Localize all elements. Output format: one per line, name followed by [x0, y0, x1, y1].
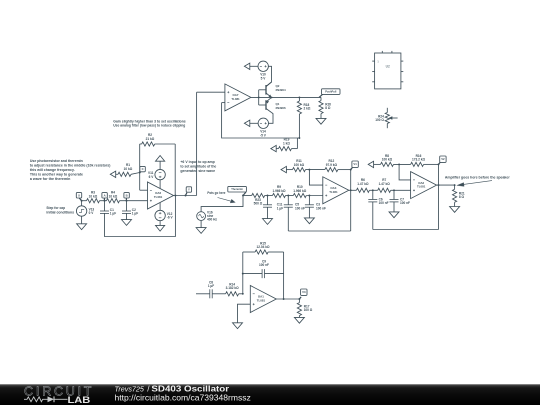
- ground: [77, 224, 87, 230]
- svg-text:100 Ω: 100 Ω: [375, 118, 384, 122]
- transistor Q2: [266, 82, 286, 97]
- svg-text:V3: V3: [302, 290, 306, 294]
- svg-text:Step for cap: Step for cap: [46, 206, 65, 210]
- wire noninverting input: [197, 91, 225, 93]
- svg-text:400 Hz: 400 Hz: [207, 218, 217, 222]
- op-amp OA1: [250, 286, 276, 313]
- wire: [250, 65, 258, 67]
- svg-text:100 kΩ: 100 kΩ: [382, 158, 393, 162]
- svg-text:+6 V input to op amp: +6 V input to op amp: [180, 160, 214, 164]
- svg-text:8 Ω: 8 Ω: [459, 195, 465, 199]
- flag V1: [351, 161, 359, 170]
- transistor Q1: [266, 97, 286, 112]
- op-amp OA7: [225, 84, 251, 111]
- svg-text:2N3906: 2N3906: [276, 106, 287, 110]
- wire inverting: [309, 170, 322, 186]
- junction: [81, 200, 128, 202]
- resistor R2: [140, 133, 176, 146]
- resistor R23: [252, 193, 273, 205]
- voltage source V13: [76, 201, 94, 217]
- IC U2: [372, 51, 403, 89]
- svg-text:10 kΩ: 10 kΩ: [109, 194, 118, 198]
- wire: [269, 113, 274, 124]
- ground: [122, 220, 132, 226]
- svg-text:This is another way to generat: This is another way to generate: [30, 173, 83, 177]
- node arrow at V14: [244, 120, 249, 126]
- wire noninverting: [238, 304, 251, 323]
- junction: [242, 195, 244, 197]
- wire: [159, 203, 161, 211]
- svg-text:10 kΩ: 10 kΩ: [124, 167, 133, 171]
- resistor R14: [226, 282, 243, 296]
- capacitor C7: [390, 190, 411, 212]
- resistor R18: [297, 97, 311, 138]
- junction: [271, 96, 273, 98]
- junction: [298, 96, 300, 98]
- resistor R6: [356, 178, 377, 192]
- wire base: [258, 90, 260, 105]
- node C: [139, 166, 146, 173]
- junction: [287, 195, 289, 197]
- wire feedback left: [139, 144, 141, 190]
- svg-text:U2: U2: [386, 65, 390, 69]
- junction: [242, 273, 244, 275]
- wire inverting input: [222, 102, 225, 104]
- annotation gain: [113, 120, 185, 128]
- flag V3: [299, 289, 307, 299]
- wire: [159, 221, 161, 226]
- resistor R20: [319, 97, 331, 118]
- node Y: [186, 187, 192, 196]
- junction: [308, 195, 310, 197]
- capacitor C3: [305, 196, 326, 218]
- resistor R4: [105, 191, 127, 203]
- svg-text:2 kΩ: 2 kΩ: [304, 107, 311, 111]
- svg-text:TL081: TL081: [231, 97, 240, 101]
- svg-text:100 kΩ: 100 kΩ: [294, 163, 305, 167]
- svg-text:100 nF: 100 nF: [316, 206, 326, 210]
- capacitor C2: [122, 201, 138, 220]
- svg-text:2N3904: 2N3904: [276, 88, 287, 92]
- svg-text:173.2 kΩ: 173.2 kΩ: [412, 158, 425, 162]
- junction: [438, 163, 440, 165]
- svg-text:generated sine wave: generated sine wave: [180, 169, 215, 173]
- svg-text:Trevs725: Trevs725: [115, 384, 145, 393]
- junction: [454, 184, 456, 186]
- svg-text:100 nF: 100 nF: [259, 263, 269, 267]
- junction: [267, 195, 269, 197]
- ground: [263, 219, 273, 225]
- resistor R17: [297, 299, 313, 317]
- flag Theremin: [228, 186, 247, 195]
- wire: [243, 195, 252, 197]
- voltage source V16: [197, 211, 218, 222]
- wire base: [259, 104, 266, 106]
- resistor R3: [87, 191, 105, 203]
- junction: [372, 189, 374, 191]
- wire to V16: [201, 196, 243, 212]
- wire feedback left: [242, 252, 244, 294]
- svg-text:TL081: TL081: [154, 195, 163, 199]
- node X: [76, 193, 81, 201]
- ground: [316, 118, 326, 124]
- svg-text:initial conditions: initial conditions: [46, 210, 74, 214]
- annotation step: [46, 206, 74, 214]
- potentiometer R24: [375, 108, 397, 128]
- annotation amplitude: [180, 160, 216, 173]
- capacitor C6: [368, 190, 388, 229]
- wire: [200, 221, 202, 228]
- ground: [450, 207, 460, 213]
- junction: [438, 184, 440, 186]
- annotation arrow: [218, 198, 236, 203]
- svg-text:3.182 kΩ: 3.182 kΩ: [226, 286, 239, 290]
- wire output node: [438, 164, 440, 229]
- svg-text:1 kΩ: 1 kΩ: [283, 141, 290, 145]
- wire feedback right: [174, 144, 176, 196]
- junction: [350, 169, 352, 171]
- wire loop: [288, 230, 350, 232]
- wire from OA6 output: [196, 92, 198, 195]
- voltage source V10: [258, 61, 268, 80]
- resistor R1: [116, 163, 140, 176]
- svg-text:this will change frequency.: this will change frequency.: [30, 168, 75, 172]
- wire output: [251, 96, 321, 98]
- resistor R11: [293, 159, 325, 172]
- resistor R15: [243, 241, 284, 254]
- wire: [127, 200, 148, 202]
- resistor R16: [411, 154, 439, 167]
- node arrow at V10: [244, 63, 249, 69]
- svg-text:1.966 kΩ: 1.966 kΩ: [273, 189, 286, 193]
- op-amp OA3: [323, 177, 349, 204]
- wire input: [196, 293, 210, 295]
- svg-text:1 µF: 1 µF: [277, 206, 283, 210]
- wire feedback: [222, 103, 300, 138]
- svg-text:A: A: [104, 193, 106, 197]
- capacitor C9: [243, 259, 284, 278]
- annotation arrow: [457, 181, 492, 187]
- svg-text:12.04 kΩ: 12.04 kΩ: [257, 245, 270, 249]
- svg-text:C: C: [142, 167, 144, 171]
- capacitor C11: [263, 196, 283, 219]
- node A: [102, 193, 107, 201]
- node B: [124, 193, 129, 201]
- ground: [196, 228, 206, 234]
- flag V2: [439, 156, 447, 164]
- svg-text:Pots go here: Pots go here: [207, 191, 225, 195]
- wire: [374, 163, 381, 165]
- op-amp OA6: [148, 182, 174, 209]
- wire output node: [350, 170, 352, 231]
- svg-text:SD403 Oscillator: SD403 Oscillator: [151, 384, 230, 393]
- svg-text:X: X: [78, 193, 80, 197]
- wire: [212, 293, 225, 295]
- resistor R12: [325, 159, 351, 172]
- wire: [81, 216, 83, 224]
- wire: [140, 189, 148, 191]
- wire feedback right: [283, 252, 285, 299]
- svg-text:B: B: [126, 193, 128, 197]
- wire output: [437, 184, 455, 186]
- node arrow at R11: [281, 166, 286, 172]
- svg-text:to set amplitude of the: to set amplitude of the: [180, 165, 216, 169]
- svg-text:TL081: TL081: [417, 185, 426, 189]
- footer bar: [0, 0, 1, 1]
- svg-text:-6 V: -6 V: [167, 216, 174, 220]
- svg-text:100 Ω: 100 Ω: [304, 308, 313, 312]
- wire: [250, 122, 258, 124]
- svg-text:V2: V2: [441, 157, 445, 161]
- svg-text:1 µF: 1 µF: [208, 284, 214, 288]
- junction: [174, 195, 186, 197]
- svg-text:100 nF: 100 nF: [295, 206, 305, 210]
- voltage source V14: [258, 118, 268, 137]
- junction: [393, 189, 395, 191]
- svg-text:http://circuitlab.com/ca739348: http://circuitlab.com/ca739348rmssz: [115, 393, 251, 402]
- svg-text:8 Ω: 8 Ω: [325, 106, 331, 110]
- svg-text:10 kΩ: 10 kΩ: [89, 194, 98, 198]
- power flag up: [156, 156, 165, 170]
- op-amp OA2: [411, 172, 437, 199]
- svg-text:500 Ω: 500 Ω: [254, 202, 263, 206]
- resistor R8: [381, 154, 411, 167]
- wire loop: [105, 196, 176, 237]
- svg-text:1.47 kΩ: 1.47 kΩ: [357, 182, 369, 186]
- svg-text:TL081: TL081: [257, 299, 266, 303]
- wire: [266, 66, 272, 86]
- capacitor C1: [100, 201, 116, 216]
- ground: [233, 323, 243, 329]
- junction: [283, 298, 301, 300]
- annotation amplifier: [445, 176, 511, 180]
- svg-text:Theremin: Theremin: [231, 187, 243, 191]
- node arrow at R1: [110, 171, 115, 177]
- node arrow at R19: [271, 145, 276, 151]
- wire base: [259, 89, 266, 91]
- voltage source V12: [155, 210, 174, 220]
- svg-text:TL081: TL081: [329, 190, 338, 194]
- svg-text:Use analog filter (low pass) t: Use analog filter (low pass) to reduce c…: [113, 124, 185, 128]
- junction: [298, 137, 300, 139]
- svg-text:100 nF: 100 nF: [400, 201, 410, 205]
- junction: [350, 189, 352, 191]
- resistor R19: [276, 138, 297, 151]
- junction: [258, 96, 260, 98]
- wire output: [174, 195, 197, 197]
- voltage source V11: [148, 169, 165, 179]
- svg-text:PushPull: PushPull: [325, 90, 336, 94]
- svg-text:1 µF: 1 µF: [132, 212, 138, 216]
- svg-text:Amplifier goes here before the: Amplifier goes here before the speaker: [445, 176, 511, 180]
- svg-text:-5 V: -5 V: [260, 133, 267, 137]
- wire: [286, 169, 292, 171]
- capacitor C5: [284, 196, 305, 232]
- wire output: [276, 298, 299, 300]
- wire: [82, 200, 87, 202]
- svg-text:97.9 kΩ: 97.9 kΩ: [326, 163, 338, 167]
- flag PushPull: [319, 89, 340, 98]
- junction: [242, 293, 244, 295]
- wire inverting: [399, 164, 411, 180]
- junction: [308, 169, 310, 171]
- svg-text:1.47 kΩ: 1.47 kΩ: [379, 182, 391, 186]
- svg-text:a wave for the theremin: a wave for the theremin: [30, 177, 71, 181]
- svg-text:Use photoresistor and theremin: Use photoresistor and theremin: [30, 159, 83, 163]
- svg-text:Y: Y: [188, 188, 190, 192]
- svg-text:100 nF: 100 nF: [379, 201, 389, 205]
- junction: [398, 163, 400, 165]
- ground: [294, 317, 304, 323]
- resistor R7: [378, 178, 411, 192]
- annotation pots: [207, 191, 225, 195]
- power flag down: [156, 225, 165, 231]
- resistor R21: [453, 185, 465, 206]
- svg-text:1 µF: 1 µF: [110, 212, 116, 216]
- ground: [304, 218, 314, 224]
- wire loop: [373, 229, 439, 231]
- resistor R10: [293, 185, 323, 198]
- resistor R9: [273, 185, 294, 198]
- svg-text:to adjust resistance in the mi: to adjust resistance in the middle (10k …: [30, 164, 111, 168]
- ground: [389, 212, 399, 218]
- annotation photoresistor: [30, 159, 111, 181]
- capacitor C8: [208, 280, 214, 298]
- svg-text:21 kΩ: 21 kΩ: [146, 137, 155, 141]
- wire: [159, 180, 161, 189]
- svg-text:1.966 kΩ: 1.966 kΩ: [293, 189, 306, 193]
- svg-text:LAB: LAB: [68, 395, 91, 405]
- svg-text:V1: V1: [353, 162, 357, 166]
- wire output: [349, 189, 357, 191]
- node arrow at R8: [368, 161, 373, 167]
